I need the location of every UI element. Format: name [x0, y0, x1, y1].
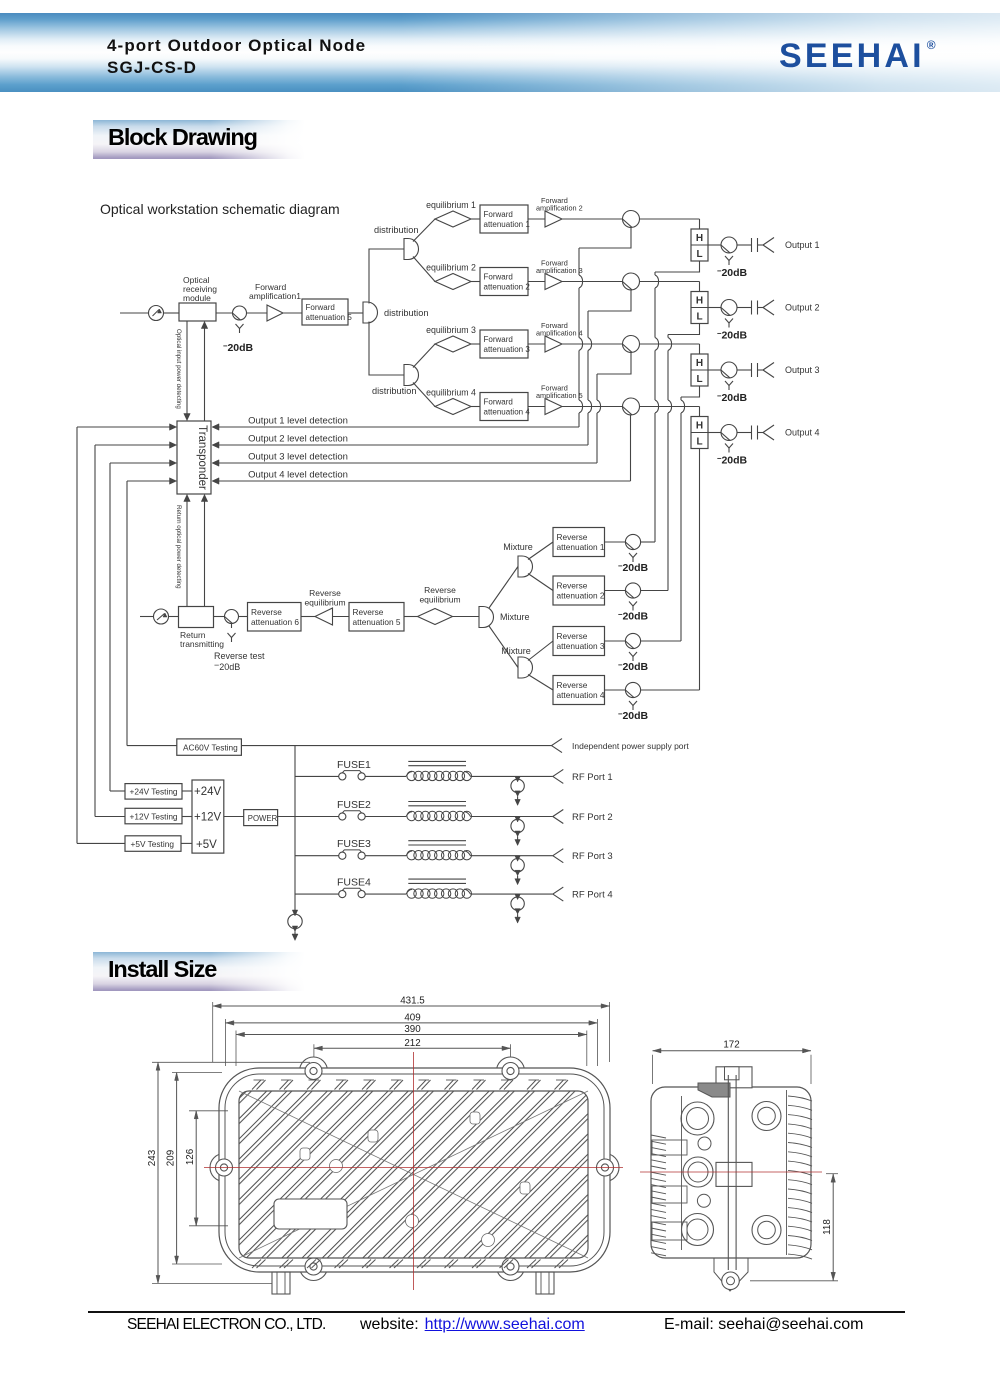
svg-text:Forward: Forward — [306, 303, 335, 312]
svg-text:118: 118 — [822, 1219, 833, 1235]
svg-text:Transponder: Transponder — [196, 425, 208, 490]
svg-text:amplification 4: amplification 4 — [536, 329, 583, 338]
svg-text:Reverse: Reverse — [309, 588, 341, 598]
svg-text:AC60V Testing: AC60V Testing — [183, 743, 238, 753]
svg-text:distribution: distribution — [374, 225, 418, 235]
svg-text:amplification 3: amplification 3 — [536, 266, 583, 275]
svg-text:H: H — [696, 233, 703, 244]
svg-text:Mixture: Mixture — [500, 612, 530, 622]
svg-text:−20dB: −20dB — [618, 610, 649, 623]
svg-text:−20dB: −20dB — [717, 392, 748, 405]
svg-text:FUSE4: FUSE4 — [337, 877, 371, 889]
svg-text:409: 409 — [404, 1012, 420, 1023]
svg-text:distribution: distribution — [384, 308, 428, 318]
svg-text:390: 390 — [404, 1024, 421, 1035]
svg-text:transmitting: transmitting — [180, 639, 224, 649]
svg-text:equilibrium 3: equilibrium 3 — [426, 325, 476, 335]
svg-text:−20dB: −20dB — [618, 661, 649, 674]
svg-text:distribution: distribution — [372, 386, 416, 396]
svg-text:attenuation 1: attenuation 1 — [557, 542, 605, 552]
svg-text:+5V Testing: +5V Testing — [131, 839, 175, 849]
svg-text:126: 126 — [185, 1148, 196, 1165]
svg-text:−20dB: −20dB — [717, 329, 748, 342]
svg-text:Reverse: Reverse — [557, 581, 588, 591]
svg-text:FUSE1: FUSE1 — [337, 759, 371, 771]
svg-text:amplification 5: amplification 5 — [536, 391, 583, 400]
svg-text:+24V Testing: +24V Testing — [130, 787, 178, 797]
svg-text:equilibrium 1: equilibrium 1 — [426, 200, 476, 210]
svg-text:Reverse: Reverse — [251, 607, 282, 617]
svg-text:RF Port 4: RF Port 4 — [572, 890, 613, 901]
svg-text:equilibrium 2: equilibrium 2 — [426, 263, 476, 273]
svg-text:H: H — [696, 421, 703, 432]
svg-text:L: L — [696, 249, 702, 260]
svg-text:Output 3: Output 3 — [785, 365, 820, 375]
svg-text:Output 4 level detection: Output 4 level detection — [248, 470, 348, 481]
svg-text:431.5: 431.5 — [400, 996, 425, 1007]
svg-text:RF Port 2: RF Port 2 — [572, 812, 613, 823]
svg-text:attenuation 5: attenuation 5 — [306, 313, 353, 322]
svg-text:H: H — [696, 296, 703, 307]
svg-text:equilibrium 4: equilibrium 4 — [426, 388, 476, 398]
svg-text:FUSE2: FUSE2 — [337, 799, 371, 811]
svg-text:Output 1 level detection: Output 1 level detection — [248, 416, 348, 427]
svg-text:RF Port 3: RF Port 3 — [572, 851, 613, 862]
svg-text:attenuation 3: attenuation 3 — [484, 345, 531, 354]
svg-text:Reverse test: Reverse test — [214, 651, 265, 661]
svg-text:module: module — [183, 293, 211, 303]
svg-text:Mixture: Mixture — [503, 542, 533, 552]
svg-text:RF Port 1: RF Port 1 — [572, 772, 613, 783]
svg-text:Forward: Forward — [484, 398, 513, 407]
svg-text:amplification 2: amplification 2 — [536, 204, 583, 213]
svg-text:−20dB: −20dB — [618, 710, 649, 723]
svg-text:attenuation 1: attenuation 1 — [484, 220, 531, 229]
svg-text:Optical input power detecting: Optical input power detecting — [175, 329, 182, 409]
svg-text:Forward: Forward — [484, 335, 513, 344]
svg-text:Mixture: Mixture — [501, 646, 531, 656]
svg-text:attenuation 4: attenuation 4 — [557, 690, 605, 700]
svg-text:−20dB: −20dB — [717, 267, 748, 280]
svg-text:+12V: +12V — [194, 812, 222, 824]
svg-text:Forward: Forward — [484, 210, 513, 219]
svg-text:L: L — [696, 312, 702, 323]
svg-text:172: 172 — [723, 1040, 739, 1051]
svg-text:212: 212 — [404, 1038, 420, 1049]
svg-text:Output 1: Output 1 — [785, 240, 820, 250]
svg-text:attenuation 6: attenuation 6 — [251, 617, 299, 627]
svg-text:attenuation 5: attenuation 5 — [353, 617, 401, 627]
svg-text:+5V: +5V — [196, 839, 217, 851]
svg-text:equilibrium: equilibrium — [419, 595, 460, 605]
svg-text:Reverse: Reverse — [424, 585, 456, 595]
svg-text:Reverse: Reverse — [353, 607, 384, 617]
svg-text:Output 2: Output 2 — [785, 303, 820, 313]
svg-text:Reverse: Reverse — [557, 631, 588, 641]
svg-text:Output 3 level detection: Output 3 level detection — [248, 452, 348, 463]
svg-text:attenuation 3: attenuation 3 — [557, 641, 605, 651]
svg-text:−20dB: −20dB — [717, 454, 748, 467]
svg-text:−20dB: −20dB — [223, 342, 254, 355]
svg-text:Optical workstation schematic: Optical workstation schematic diagram — [100, 201, 340, 217]
svg-text:attenuation 2: attenuation 2 — [484, 283, 531, 292]
svg-text:Independent power supply port: Independent power supply port — [572, 741, 689, 751]
svg-text:Return optical power detecting: Return optical power detecting — [175, 505, 182, 589]
svg-text:equilibrium: equilibrium — [304, 598, 345, 608]
svg-text:L: L — [696, 374, 702, 385]
svg-text:Output 2 level detection: Output 2 level detection — [248, 434, 348, 445]
svg-text:+12V Testing: +12V Testing — [130, 811, 178, 821]
svg-text:attenuation 4: attenuation 4 — [484, 408, 531, 417]
svg-text:Forward: Forward — [484, 273, 513, 282]
svg-text:POWER: POWER — [248, 814, 278, 823]
svg-text:Reverse: Reverse — [557, 532, 588, 542]
svg-text:209: 209 — [166, 1150, 177, 1166]
svg-text:243: 243 — [147, 1149, 158, 1166]
svg-text:Reverse: Reverse — [557, 680, 588, 690]
svg-text:−20dB: −20dB — [214, 660, 240, 672]
svg-text:+24V: +24V — [194, 786, 222, 798]
svg-text:FUSE3: FUSE3 — [337, 838, 371, 850]
svg-text:H: H — [696, 358, 703, 369]
svg-text:L: L — [696, 437, 702, 448]
svg-text:−20dB: −20dB — [618, 562, 649, 575]
svg-text:Output 4: Output 4 — [785, 428, 820, 438]
svg-text:amplification1: amplification1 — [249, 291, 301, 301]
svg-text:attenuation 2: attenuation 2 — [557, 591, 605, 601]
